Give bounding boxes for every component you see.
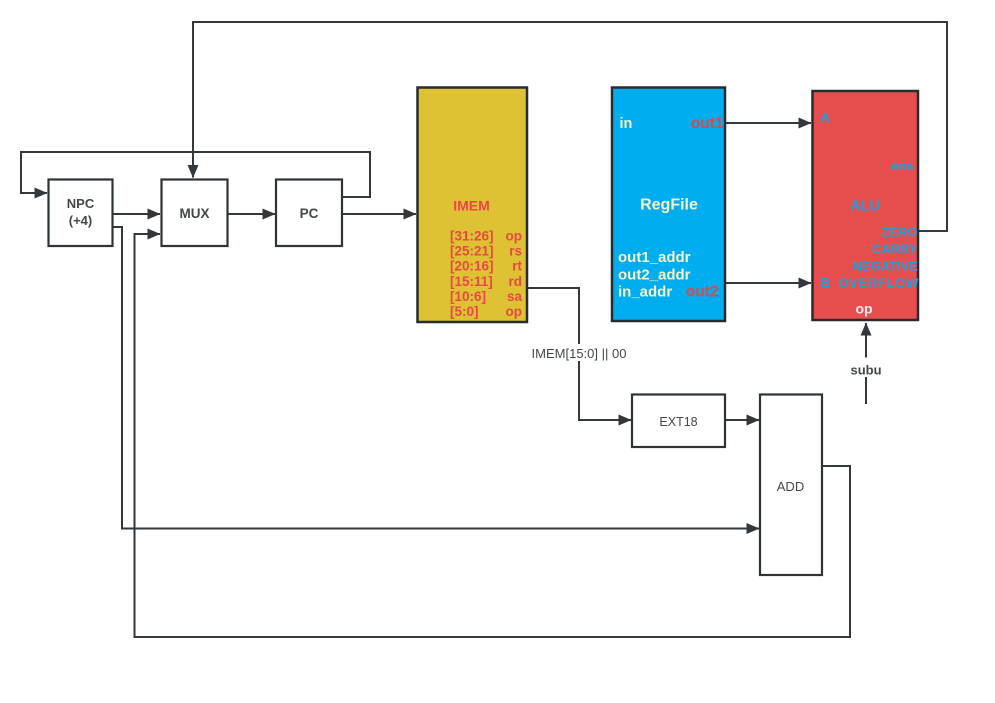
svg-text:[25:21]: [25:21]	[450, 244, 494, 259]
svg-text:A: A	[820, 110, 830, 126]
svg-text:OVERFLOW: OVERFLOW	[838, 276, 919, 291]
svg-text:EXT18: EXT18	[659, 415, 697, 429]
svg-text:ALU: ALU	[850, 199, 880, 215]
svg-text:[10:6]: [10:6]	[450, 289, 486, 304]
svg-text:[31:26]: [31:26]	[450, 229, 494, 244]
svg-text:[5:0]: [5:0]	[450, 304, 479, 319]
svg-text:NPC: NPC	[67, 196, 95, 211]
svg-text:RegFile: RegFile	[640, 197, 698, 214]
svg-text:out1_addr: out1_addr	[618, 249, 691, 266]
svg-text:MUX: MUX	[180, 206, 210, 221]
svg-text:ans: ans	[891, 158, 913, 173]
svg-text:(+4): (+4)	[69, 213, 92, 228]
svg-text:subu: subu	[850, 363, 881, 378]
svg-text:[20:16]: [20:16]	[450, 259, 494, 274]
svg-text:op: op	[506, 304, 523, 319]
svg-text:in_addr: in_addr	[618, 284, 672, 301]
svg-text:out1: out1	[691, 115, 724, 132]
svg-text:out2_addr: out2_addr	[618, 267, 691, 284]
svg-text:out2: out2	[686, 284, 719, 301]
svg-text:[15:11]: [15:11]	[450, 274, 493, 289]
svg-text:rs: rs	[509, 244, 522, 259]
svg-text:IMEM[15:0] || 00: IMEM[15:0] || 00	[532, 346, 627, 361]
svg-text:sa: sa	[507, 289, 523, 304]
svg-text:rt: rt	[512, 259, 522, 274]
svg-text:CARRY: CARRY	[872, 242, 918, 257]
svg-text:ZERO: ZERO	[881, 225, 917, 240]
svg-text:IMEM: IMEM	[453, 198, 490, 214]
svg-text:rd: rd	[509, 274, 523, 289]
svg-text:op: op	[855, 301, 872, 317]
svg-text:B: B	[820, 275, 830, 291]
svg-text:op: op	[506, 229, 523, 244]
svg-text:ADD: ADD	[777, 479, 804, 494]
svg-text:NEGATIVE: NEGATIVE	[853, 259, 919, 274]
svg-text:PC: PC	[300, 206, 319, 221]
svg-text:in: in	[620, 116, 633, 132]
